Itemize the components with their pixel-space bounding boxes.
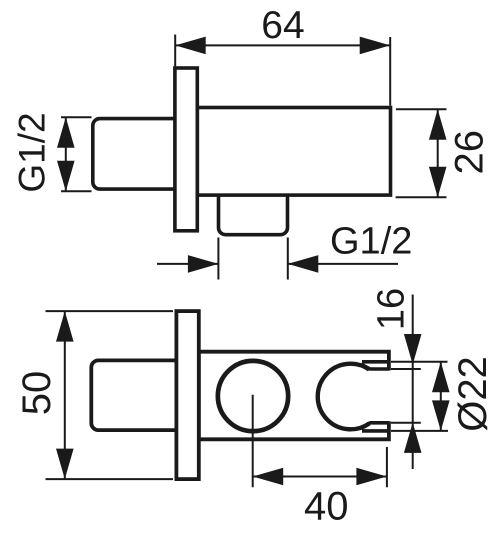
svg-text:G1/2: G1/2: [12, 112, 53, 192]
inlet spigot (bottom view, left nub): [91, 360, 186, 430]
holder cup arc (open right): [318, 364, 370, 430]
svg-text:64: 64: [261, 4, 304, 47]
dim 50: dimension line: [64, 311, 66, 479]
dim 50: arrowheads: [56, 311, 74, 479]
dim G1/2 inlet: arrowheads: [57, 117, 75, 191]
dim 26: extension lines: [396, 109, 447, 197]
wall flange (side view): [175, 68, 197, 231]
wall flange (bottom view): [176, 311, 198, 479]
body (bottom view): [199, 352, 389, 440]
inlet spigot G1/2 (side view, left nub): [93, 119, 186, 190]
svg-text:16: 16: [370, 288, 412, 330]
dim G1/2 outlet: extension lines: [218, 238, 287, 280]
dim 40: arrowheads: [253, 468, 387, 486]
dim 16: arrowheads: [404, 334, 422, 453]
dim 26: arrowheads: [429, 109, 447, 197]
dim 64: extension lines: [175, 35, 390, 106]
dim G1/2 outlet: dimension line: [157, 263, 398, 265]
svg-text:G1/2: G1/2: [330, 221, 412, 263]
dim 64: dimension line: [175, 44, 390, 46]
svg-text:50: 50: [15, 371, 59, 416]
outlet spigot (side view, bottom nub): [219, 190, 288, 235]
dim 26: dimension line: [437, 109, 439, 197]
dim 16: extension lines: [391, 369, 421, 423]
holder jaw top: [361, 362, 389, 369]
mounting circle: [218, 361, 288, 431]
dim 50: extension lines: [46, 311, 174, 479]
body (side view): [197, 108, 390, 196]
dim 16: dimension line: [412, 295, 414, 470]
dim 40: dimension line: [253, 476, 387, 478]
holder jaw bottom: [361, 423, 389, 431]
dim 40: extension lines: [253, 395, 387, 488]
dim diameter 22: arrowheads: [432, 362, 450, 431]
dim G1/2 inlet: dimension line: [65, 117, 67, 191]
dim 64: arrowheads: [175, 37, 390, 55]
svg-text:Ø22: Ø22: [451, 356, 495, 432]
dim G1/2 outlet: arrowheads: [188, 255, 318, 273]
dim diameter 22: dimension line: [440, 362, 442, 431]
dim G1/2 inlet: extension lines: [61, 117, 92, 191]
dim diameter 22: extension lines: [391, 362, 448, 431]
svg-text:26: 26: [448, 130, 492, 175]
svg-text:40: 40: [304, 485, 349, 529]
